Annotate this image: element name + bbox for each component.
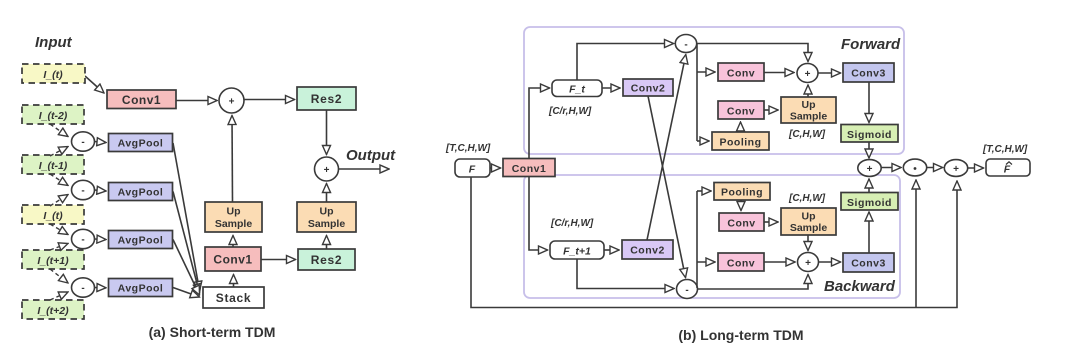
wire Conv3F to SigmoidF xyxy=(868,82,870,123)
svg-text:+: + xyxy=(953,164,959,175)
wire I_(t-2) to minus1 xyxy=(50,124,68,137)
wire SigmoidF to plus-sum xyxy=(868,142,870,158)
svg-text:Backward: Backward xyxy=(824,278,896,295)
plus circle forward xyxy=(797,64,818,83)
svg-text:(b) Long-term TDM: (b) Long-term TDM xyxy=(678,327,803,343)
svg-text:AvgPool: AvgPool xyxy=(118,138,164,150)
svg-text:Conv1: Conv1 xyxy=(512,163,547,175)
box Fhat xyxy=(986,159,1030,176)
wire minus4 to AvgPool4 xyxy=(95,287,107,289)
wire Res2 down to plus2 xyxy=(326,110,328,155)
plus circle backward xyxy=(798,253,819,272)
svg-text:F: F xyxy=(469,164,476,176)
wire plus-final to Fhat xyxy=(967,167,984,169)
svg-text:(a) Short-term TDM: (a) Short-term TDM xyxy=(149,324,276,340)
box Stack xyxy=(203,287,264,308)
wire F_t up to minus-top xyxy=(577,44,674,81)
box Conv forward mid xyxy=(718,101,764,119)
container Forward block xyxy=(524,27,904,154)
svg-text:[C/r,H,W]: [C/r,H,W] xyxy=(548,106,592,117)
svg-text:Sample: Sample xyxy=(790,222,828,234)
svg-text:Up: Up xyxy=(320,206,334,218)
box Pooling backward xyxy=(714,183,770,201)
minus circle top xyxy=(675,35,696,53)
wire F_t+1 down to minus-bottom xyxy=(577,259,674,289)
wire Conv1b to UpSampleL xyxy=(232,236,234,248)
box AvgPool 3 xyxy=(109,231,173,249)
svg-text:Pooling: Pooling xyxy=(720,137,762,149)
box Conv forward top xyxy=(718,63,764,81)
svg-text:AvgPool: AvgPool xyxy=(118,235,164,247)
box Conv1 second xyxy=(205,247,261,271)
wire F_t to Conv2 xyxy=(602,87,620,89)
wire Conv1 up to F_t xyxy=(529,88,550,158)
wire I_(t) to minus2 xyxy=(50,195,68,207)
wire branch to ConvF1 xyxy=(697,71,715,73)
wire minus2 to AvgPool2 xyxy=(95,190,107,191)
box F_t+1 xyxy=(550,241,604,259)
wire Conv1 down to F_t+1 xyxy=(529,177,548,251)
wire minus-bottom branch up xyxy=(696,191,698,288)
svg-text:[C/r,H,W]: [C/r,H,W] xyxy=(550,218,594,229)
svg-text:F_t+1: F_t+1 xyxy=(563,246,591,258)
wire plus2 to output xyxy=(339,168,390,170)
svg-text:Conv1: Conv1 xyxy=(122,93,161,107)
input box I_(t+1) xyxy=(22,250,84,269)
wire AvgPool3 to Stack xyxy=(173,240,200,296)
wire Conv1b to Res2b xyxy=(261,259,296,261)
box AvgPool 2 xyxy=(109,183,173,201)
svg-text:Res2: Res2 xyxy=(311,92,343,106)
svg-text:Conv: Conv xyxy=(727,258,755,270)
svg-text:Forward: Forward xyxy=(841,36,901,53)
input box I_(t-2) xyxy=(22,105,84,124)
wire minus-top out to plusF top xyxy=(697,44,809,62)
wire SigmoidB to plus-sum xyxy=(868,179,870,193)
svg-text:+: + xyxy=(324,165,330,176)
svg-text:Res2: Res2 xyxy=(311,253,343,267)
plus circle sum xyxy=(858,160,881,177)
box Up Sample backward xyxy=(781,208,836,235)
wire UpSampleR to plus2 xyxy=(326,184,328,203)
svg-text:I_(t-1): I_(t-1) xyxy=(39,160,68,172)
svg-text:Up: Up xyxy=(227,206,241,218)
minus circle bottom xyxy=(677,280,698,299)
wire AvgPool2 to Stack xyxy=(173,192,200,294)
svg-text:AvgPool: AvgPool xyxy=(118,187,164,199)
wire Res2b to UpSampleR xyxy=(326,236,328,250)
plus circle 1 xyxy=(219,88,244,113)
svg-text:F_t: F_t xyxy=(569,84,585,96)
svg-text:Conv1: Conv1 xyxy=(213,253,252,267)
wire I_(t) to minus3 xyxy=(50,224,68,235)
plus circle final xyxy=(944,160,967,177)
wire ConvF top to plusF xyxy=(764,72,794,74)
wire I_(t-1) to minus2 xyxy=(50,174,68,186)
svg-text:Output: Output xyxy=(346,147,396,164)
svg-text:Conv2: Conv2 xyxy=(631,83,666,95)
wire I_(t) to Conv1 xyxy=(85,76,104,93)
svg-text:I_(t): I_(t) xyxy=(43,210,63,222)
svg-text:I_(t+1): I_(t+1) xyxy=(37,255,69,267)
minus circle 2 xyxy=(72,180,95,199)
wire UpSampleB to plusB xyxy=(807,235,809,251)
input box I_(t-1) xyxy=(22,155,84,174)
wire branch to PoolingB xyxy=(697,190,711,192)
svg-text:Conv: Conv xyxy=(727,68,755,80)
box Res2 top xyxy=(297,87,356,110)
svg-text:Conv3: Conv3 xyxy=(851,258,886,270)
wire AvgPool4 to Stack xyxy=(173,288,200,298)
wire plus1 to Res2 xyxy=(244,99,295,101)
wire ConvB low to plusB xyxy=(764,261,795,263)
wire F bypass bottom to plus-final xyxy=(471,178,957,308)
wire plus-sum to mult xyxy=(881,167,901,169)
input box I_(t) middle xyxy=(22,205,84,224)
svg-text:-: - xyxy=(81,283,84,294)
svg-text:Up: Up xyxy=(802,211,816,223)
mult circle xyxy=(903,159,926,176)
minus circle 3 xyxy=(72,229,95,248)
box AvgPool 1 xyxy=(109,134,173,152)
svg-text:F: F xyxy=(1004,164,1011,176)
svg-text:I_(t): I_(t) xyxy=(43,69,63,81)
svg-text:-: - xyxy=(685,285,688,296)
wire Conv3B to SigmoidB xyxy=(868,212,870,253)
wire PoolingB to ConvB up xyxy=(740,200,742,211)
wire Stack to Conv1b xyxy=(233,275,235,288)
wire F to Conv1 xyxy=(490,167,501,169)
svg-text:Sigmoid: Sigmoid xyxy=(847,197,892,209)
plus circle 2 xyxy=(315,157,339,181)
wire I_(t+1) to minus4 xyxy=(50,269,68,283)
wire minus-bottom out to plusB bottom xyxy=(698,275,809,290)
svg-text:Pooling: Pooling xyxy=(721,187,763,199)
wire I_(t+2) to minus4 xyxy=(50,292,68,300)
box Conv3 backward xyxy=(843,253,894,272)
svg-text:[T,C,H,W]: [T,C,H,W] xyxy=(445,143,491,154)
box Up Sample right xyxy=(297,202,356,232)
svg-text:-: - xyxy=(81,186,84,197)
wire ConvB up to UpSampleB xyxy=(764,221,778,223)
box F xyxy=(455,159,490,177)
svg-text:-: - xyxy=(684,40,687,51)
svg-text:+: + xyxy=(805,69,811,80)
svg-text:I_(t+2): I_(t+2) xyxy=(37,305,69,317)
svg-text:+: + xyxy=(867,164,873,175)
wire Conv1 to plus1 xyxy=(176,100,217,102)
wire PoolingF to ConvF mid xyxy=(740,122,742,132)
svg-text:I_(t-2): I_(t-2) xyxy=(39,110,68,122)
box Sigmoid backward xyxy=(841,193,898,211)
svg-text:Sample: Sample xyxy=(215,218,253,230)
svg-text:Conv: Conv xyxy=(727,218,755,230)
svg-text:Conv3: Conv3 xyxy=(851,68,886,80)
box AvgPool 4 xyxy=(109,279,173,297)
svg-text:AvgPool: AvgPool xyxy=(118,283,164,295)
wire UpSampleL to plus1 xyxy=(231,116,234,203)
wire minus-top branch down xyxy=(696,44,698,142)
svg-text:Up: Up xyxy=(802,99,816,111)
box Res2 bottom xyxy=(298,249,355,270)
svg-text:Stack: Stack xyxy=(216,291,252,305)
wire plusB to Conv3B xyxy=(819,261,841,263)
svg-text:Sample: Sample xyxy=(308,218,346,230)
svg-text:+: + xyxy=(229,97,235,108)
box Conv1 long xyxy=(503,159,555,177)
svg-text:-: - xyxy=(81,235,84,246)
svg-text:Sample: Sample xyxy=(790,111,828,123)
wire Conv2b diag up to minus-top xyxy=(647,55,686,241)
wire I_(t-1) to minus1 xyxy=(50,147,68,157)
box Conv1 first xyxy=(107,90,176,109)
box Conv backward upper xyxy=(719,213,764,231)
svg-text:Conv: Conv xyxy=(727,106,755,118)
input box I_(t) top xyxy=(22,64,85,83)
wire minus3 to AvgPool3 xyxy=(95,238,107,241)
minus circle 1 xyxy=(72,132,95,151)
svg-text:-: - xyxy=(81,137,84,148)
svg-text:Input: Input xyxy=(35,34,73,51)
wire Conv2 diag down to minus-bottom xyxy=(648,96,686,278)
wire bypass branch to mult xyxy=(915,180,917,308)
wire ConvF mid to UpSampleF xyxy=(764,109,778,111)
container Backward block xyxy=(524,175,900,298)
wire branch to PoolingF xyxy=(697,140,709,142)
wire branch to ConvB low xyxy=(697,261,715,263)
minus circle 4 xyxy=(72,278,95,297)
box Conv3 forward xyxy=(843,63,894,82)
box Conv2 bottom xyxy=(622,240,673,259)
wire AvgPool1 to Stack xyxy=(173,143,200,291)
wire UpSampleF to plusF xyxy=(807,85,809,97)
wire I_(t+1) to minus3 xyxy=(50,244,68,251)
box Pooling forward xyxy=(712,132,769,150)
svg-text:[T,C,H,W]: [T,C,H,W] xyxy=(982,144,1028,155)
box Up Sample forward xyxy=(781,97,836,123)
wire F_t+1 to Conv2b xyxy=(604,249,619,251)
wire minus1 to AvgPool1 xyxy=(95,142,107,143)
box Conv backward lower xyxy=(718,253,764,271)
svg-text:Sigmoid: Sigmoid xyxy=(847,129,892,141)
box Up Sample left xyxy=(205,202,262,232)
box Sigmoid forward xyxy=(841,125,898,143)
wire mult to plus-final xyxy=(926,167,943,169)
svg-text:+: + xyxy=(805,258,811,269)
box Conv2 top xyxy=(623,79,673,96)
svg-text:[C,H,W]: [C,H,W] xyxy=(788,193,826,204)
svg-text:[C,H,W]: [C,H,W] xyxy=(788,129,826,140)
wire plusF to Conv3F xyxy=(818,72,841,74)
input box I_(t+2) xyxy=(22,300,84,319)
box F_t xyxy=(552,80,602,97)
svg-text:Conv2: Conv2 xyxy=(630,245,665,257)
